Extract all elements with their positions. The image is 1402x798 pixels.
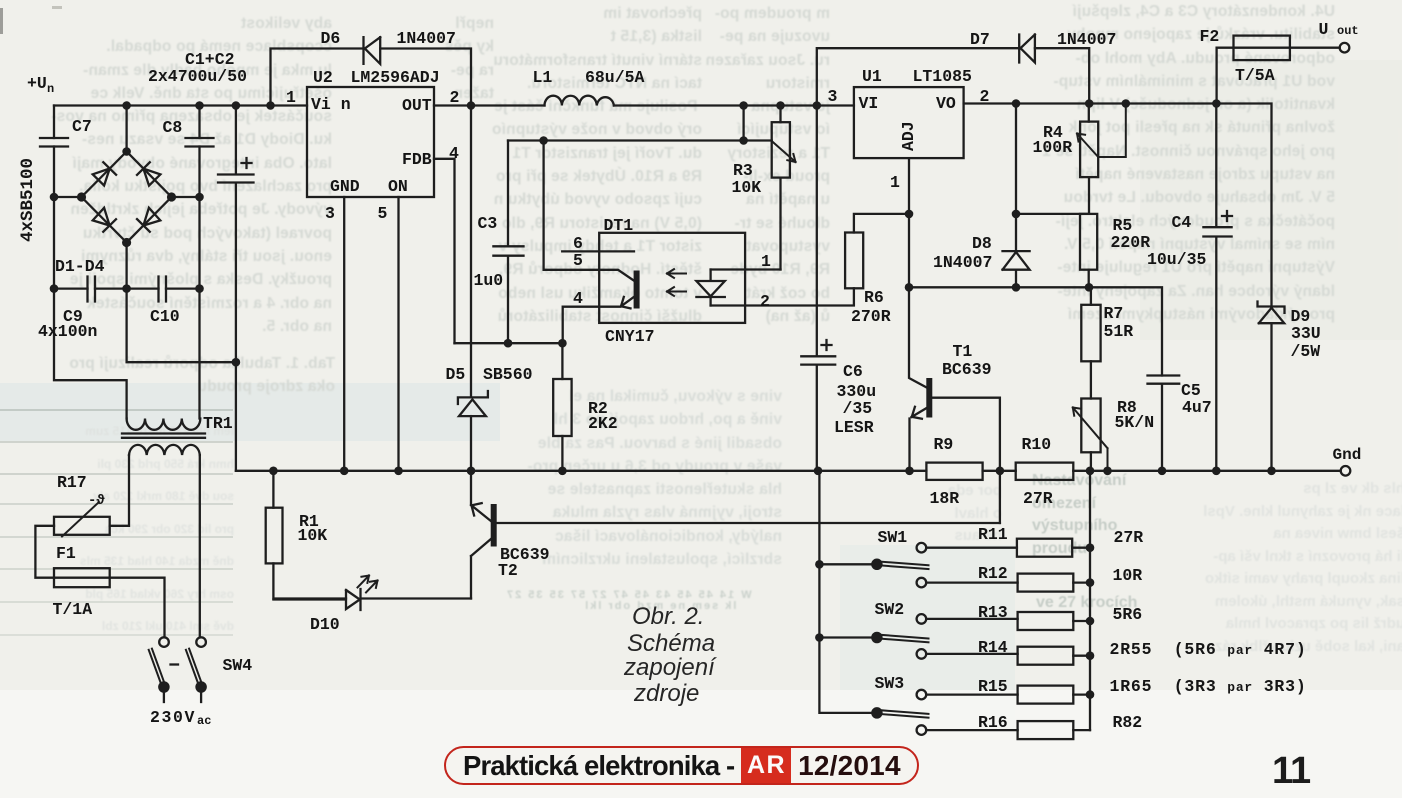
label 4xSB5100 [18, 158, 38, 242]
label R15 [978, 677, 1008, 696]
label C1+C2 [185, 50, 235, 69]
caption zdroje [634, 682, 699, 706]
wire ADJ net [909, 287, 1162, 375]
label D10 [310, 615, 340, 634]
wire SW3b to R16 [926, 729, 1017, 731]
value 1R65 (R15) [1110, 677, 1307, 696]
resistor R2 [561, 343, 563, 471]
wire SW1 to R11 [926, 547, 1017, 549]
label 4u7 [1182, 398, 1212, 417]
resistor R6 [845, 233, 863, 289]
label D7 [970, 30, 990, 49]
label R1 [299, 512, 319, 531]
switch SW4 pole 1 [159, 637, 169, 647]
label /5W [1291, 342, 1321, 361]
faint table rules bottom-left [0, 409, 233, 411]
wire switch-node drop to D5 [470, 106, 472, 397]
CNY17 LED [696, 270, 724, 306]
thermistor R17 [54, 517, 110, 535]
capacitor C7 [40, 138, 68, 147]
label 5K/N [1115, 413, 1155, 432]
potentiometer R4 [1088, 104, 1090, 214]
label R3 [733, 161, 753, 180]
wire U2 FDB pin 4 [434, 159, 455, 343]
wire R17 to F1 [35, 526, 54, 578]
label /35 [843, 399, 873, 418]
label 1N4007 (D8) [933, 253, 992, 272]
label D8 [972, 234, 992, 253]
label LT1085 [913, 67, 972, 86]
label C4 [1172, 213, 1192, 232]
paper tint bands [0, 383, 500, 441]
switch SW3 [872, 708, 881, 717]
resistor R10 [1016, 463, 1074, 480]
page number 11 [1272, 748, 1310, 793]
U2 pin number 4 [449, 144, 459, 163]
terminal Gnd [1341, 466, 1351, 476]
label F1 [56, 544, 76, 563]
wire SW2b to R14 [926, 653, 1017, 655]
wire F1 to SW4 pole1 [110, 578, 165, 638]
switch SW1 [872, 560, 881, 569]
capacitor C1+C2 [218, 106, 254, 471]
diode D7 symbol [1019, 35, 1035, 63]
label Uout [1319, 20, 1329, 39]
label TR1 [203, 414, 233, 433]
label 10K (R1) [298, 526, 328, 545]
SW4 tie dash [171, 663, 179, 665]
terminal Uout [1340, 43, 1350, 53]
node bridge plus to rail [125, 106, 127, 152]
IC U2 LM2596ADJ box [307, 87, 434, 197]
wire sense node to T2 base [497, 522, 1000, 524]
value R82 (R16) [1113, 713, 1143, 732]
label BC639 (T1) [942, 360, 992, 379]
wire L1 to U1 VI rail [614, 104, 854, 106]
diode D3 bottom-left [93, 208, 116, 232]
label C3 [478, 214, 498, 233]
diode D7 loop [817, 48, 1089, 105]
value 2R55 (R14) [1110, 640, 1307, 659]
wire AC1 jog to transformer secondary left [54, 289, 127, 419]
U1 pin number 3 [828, 87, 838, 106]
label R14 [978, 638, 1008, 657]
U1 pin name VO [936, 94, 956, 113]
label SW1 [878, 528, 908, 547]
U2 pin name ON [388, 177, 408, 196]
label R17 [57, 473, 87, 492]
label 100R [1033, 138, 1073, 157]
resistor ladder bus [1089, 471, 1091, 730]
capacitor C4 [1203, 104, 1232, 471]
label SB560 [483, 365, 533, 384]
resistor R12 [1018, 574, 1074, 592]
label R6 [864, 288, 884, 307]
label Gnd [1333, 445, 1362, 463]
capacitor C10 [159, 277, 167, 302]
label D6 [321, 29, 341, 48]
CNY17 pin 1 [761, 252, 771, 271]
label CNY17 [605, 327, 655, 346]
switch bus SW1-SW3 [819, 471, 872, 713]
capacitor C8 [186, 138, 214, 147]
value 10R (R12) [1113, 566, 1143, 585]
label U1 [862, 67, 882, 86]
label 270R [851, 307, 891, 326]
label 230Vac [150, 708, 196, 727]
wire snubber row [54, 287, 200, 289]
wire feedback/wiper line [508, 139, 772, 141]
potentiometer R3 [779, 106, 781, 270]
label 33U [1291, 324, 1321, 343]
fuse F2 [1217, 48, 1234, 104]
label R9 [934, 435, 954, 454]
resistor R15 [1018, 686, 1074, 704]
diode D6 symbol [364, 37, 381, 64]
label C9 [63, 307, 83, 326]
label 1N4007 (D7) [1057, 30, 1116, 49]
label R5 [1113, 216, 1133, 235]
diode D5 SB560 schottky [458, 391, 488, 416]
IC U1 LT1085 box [854, 87, 964, 158]
switch SW4 pole 2 [196, 637, 206, 647]
label C6 [843, 362, 863, 381]
U2 pin number 2 [450, 88, 460, 107]
U1 pin name VI [859, 94, 879, 113]
label F2 [1200, 27, 1220, 46]
label R16 [978, 713, 1008, 732]
resistor R9 [926, 463, 982, 480]
CNY17 pin 1 wire to R3 [711, 268, 781, 270]
CNY17 pin 2 wire to R6 [711, 288, 854, 305]
wire C8/AC2 vertical to secondary right [198, 106, 200, 419]
wire U2 OUT pin 2 [434, 104, 545, 106]
U2 pin name OUT [402, 96, 432, 115]
label D1-D4 [55, 257, 105, 276]
label 51R [1104, 322, 1134, 341]
label thermistor mark [88, 492, 105, 508]
label 10K (R3) [732, 178, 762, 197]
resistor R7 [1090, 287, 1092, 305]
potentiometer R8 [1081, 399, 1100, 453]
D10 light arrows [358, 576, 378, 593]
label 27R (R10) [1023, 489, 1053, 508]
diode D8 1N4007 [1003, 104, 1030, 288]
diode D4 bottom-right [137, 208, 160, 232]
wire +Un input rail [54, 104, 307, 106]
label 2x4700u/50 [148, 67, 247, 86]
U2 pin name Vin [311, 95, 351, 114]
label R8 [1117, 398, 1137, 417]
wire primary right to SW4 pole2 [199, 455, 201, 637]
label 10u/35 [1147, 250, 1206, 269]
label 18R [930, 489, 960, 508]
label T1 [953, 342, 973, 361]
label T/1A [53, 600, 93, 619]
wire D5 anode to ground rail [470, 416, 472, 471]
CNY17 pin 6 [573, 234, 583, 253]
label T/5A [1235, 66, 1275, 85]
CNY17 pin 4 [573, 289, 583, 308]
label 68u/5A [585, 68, 644, 87]
capacitor C9 [88, 277, 96, 302]
resistor R5 [1080, 214, 1097, 270]
label R2 [588, 399, 608, 418]
label D9 [1291, 307, 1311, 326]
bridge rectifier D1-D4 diamond [82, 152, 172, 243]
wire bridge AC2 to C8 line [172, 196, 200, 198]
resistor R13 [1018, 612, 1074, 630]
wire U2 GND pin 3 [343, 197, 345, 471]
label C10 [150, 307, 180, 326]
caption zapojeni [624, 656, 715, 680]
inductor L1 [545, 96, 614, 106]
wire U1 VO rail [964, 104, 1272, 307]
wire T1 base to sense node [933, 398, 1000, 523]
label R13 [978, 603, 1008, 622]
diode D1 top-left [93, 162, 116, 185]
label +Un [27, 74, 47, 93]
CNY17 pin 6 base stub [562, 250, 634, 252]
label R7 [1104, 304, 1124, 323]
wire bridge minus drop [127, 243, 236, 363]
U2 pin name GND [330, 177, 360, 196]
CNY17 emitter with arrow [563, 297, 635, 344]
wire U2 ON pin 5 [397, 197, 399, 471]
resistor R14 [1018, 647, 1074, 665]
label D5 [446, 365, 466, 384]
wire SW2 to R13 [926, 618, 1017, 620]
resistor R1 [272, 471, 274, 508]
switch SW2 [872, 633, 881, 642]
label U2 [313, 68, 333, 87]
label SW3 [875, 674, 905, 693]
label 2K2 [588, 414, 618, 433]
zener D9 [1258, 302, 1285, 471]
wire left input drop to bridge AC1 [54, 106, 82, 289]
CNY17 light arrows [667, 269, 686, 296]
label LM2596ADJ [351, 68, 440, 87]
transformer TR1 core [122, 434, 205, 438]
wire rail tap to wiper line [742, 106, 744, 141]
U2 pin number 5 [378, 204, 388, 223]
label 220R [1111, 233, 1151, 252]
value 5R6 (R13) [1113, 605, 1143, 624]
transistor T1 BC639 [909, 287, 928, 388]
CNY17 pin 2 [760, 292, 770, 311]
caption Obr. 2. [632, 605, 704, 629]
U1 pin number 2 [980, 87, 990, 106]
footer badge Prakticka elektronika AR 12/2014 [444, 746, 919, 785]
value 27R (R11) [1114, 528, 1144, 547]
label C8 [163, 118, 183, 137]
wire R4/R5 tap to D8 [1016, 213, 1089, 215]
label 1N4007 (D6) [397, 29, 456, 48]
U1 pin number 1 [890, 173, 900, 192]
label BC639 (T2) [500, 545, 550, 564]
capacitor C3 [493, 141, 523, 344]
label C7 [72, 117, 92, 136]
label R4 [1043, 123, 1063, 142]
label R11 [978, 525, 1008, 544]
transformer TR1 secondary winding [127, 419, 201, 430]
label R10 [1022, 435, 1052, 454]
capacitor C6 [801, 340, 835, 471]
U1 pin name ADJ [899, 121, 918, 151]
diode D6 loop [271, 49, 472, 106]
label 1u0 [474, 271, 504, 290]
label R12 [978, 564, 1008, 583]
transistor T2 BC639 [471, 471, 492, 522]
U2 pin number 3 [325, 204, 335, 223]
resistor R11 [1017, 539, 1072, 557]
CNY17 pin 5 collector wire [544, 141, 635, 282]
optocoupler DT1 CNY17 box [599, 233, 745, 323]
caption Schema [627, 632, 715, 656]
label DT1 [604, 216, 634, 235]
CNY17 phototransistor base bar [634, 274, 640, 306]
fuse F1 [54, 568, 110, 587]
wire U1 ADJ pin 1 [908, 158, 910, 287]
wire primary left to R17 [110, 455, 129, 526]
wire FDB net horizontal [455, 342, 563, 344]
transformer TR1 primary winding [129, 445, 200, 455]
U2 pin number 1 [286, 88, 296, 107]
wire SW1b to R12 [926, 581, 1017, 583]
label 4x100n [38, 322, 97, 341]
wire SW3 to R15 [926, 693, 1017, 695]
resistor R16 [1018, 721, 1074, 739]
ground rail [236, 470, 1341, 472]
U2 pin name FDB [402, 150, 432, 169]
label C5 [1181, 381, 1201, 400]
CNY17 pin 5 [573, 251, 583, 270]
label L1 [533, 68, 553, 87]
label LESR [834, 418, 874, 437]
label SW2 [875, 600, 905, 619]
label 330u [837, 382, 877, 401]
label SW4 [223, 656, 253, 675]
diode D2 top-right [137, 162, 160, 185]
wire C6 drop from VI rail [816, 106, 818, 357]
capacitor C5 [1148, 376, 1180, 471]
LED D10 [273, 589, 471, 610]
label T2 [498, 561, 518, 580]
